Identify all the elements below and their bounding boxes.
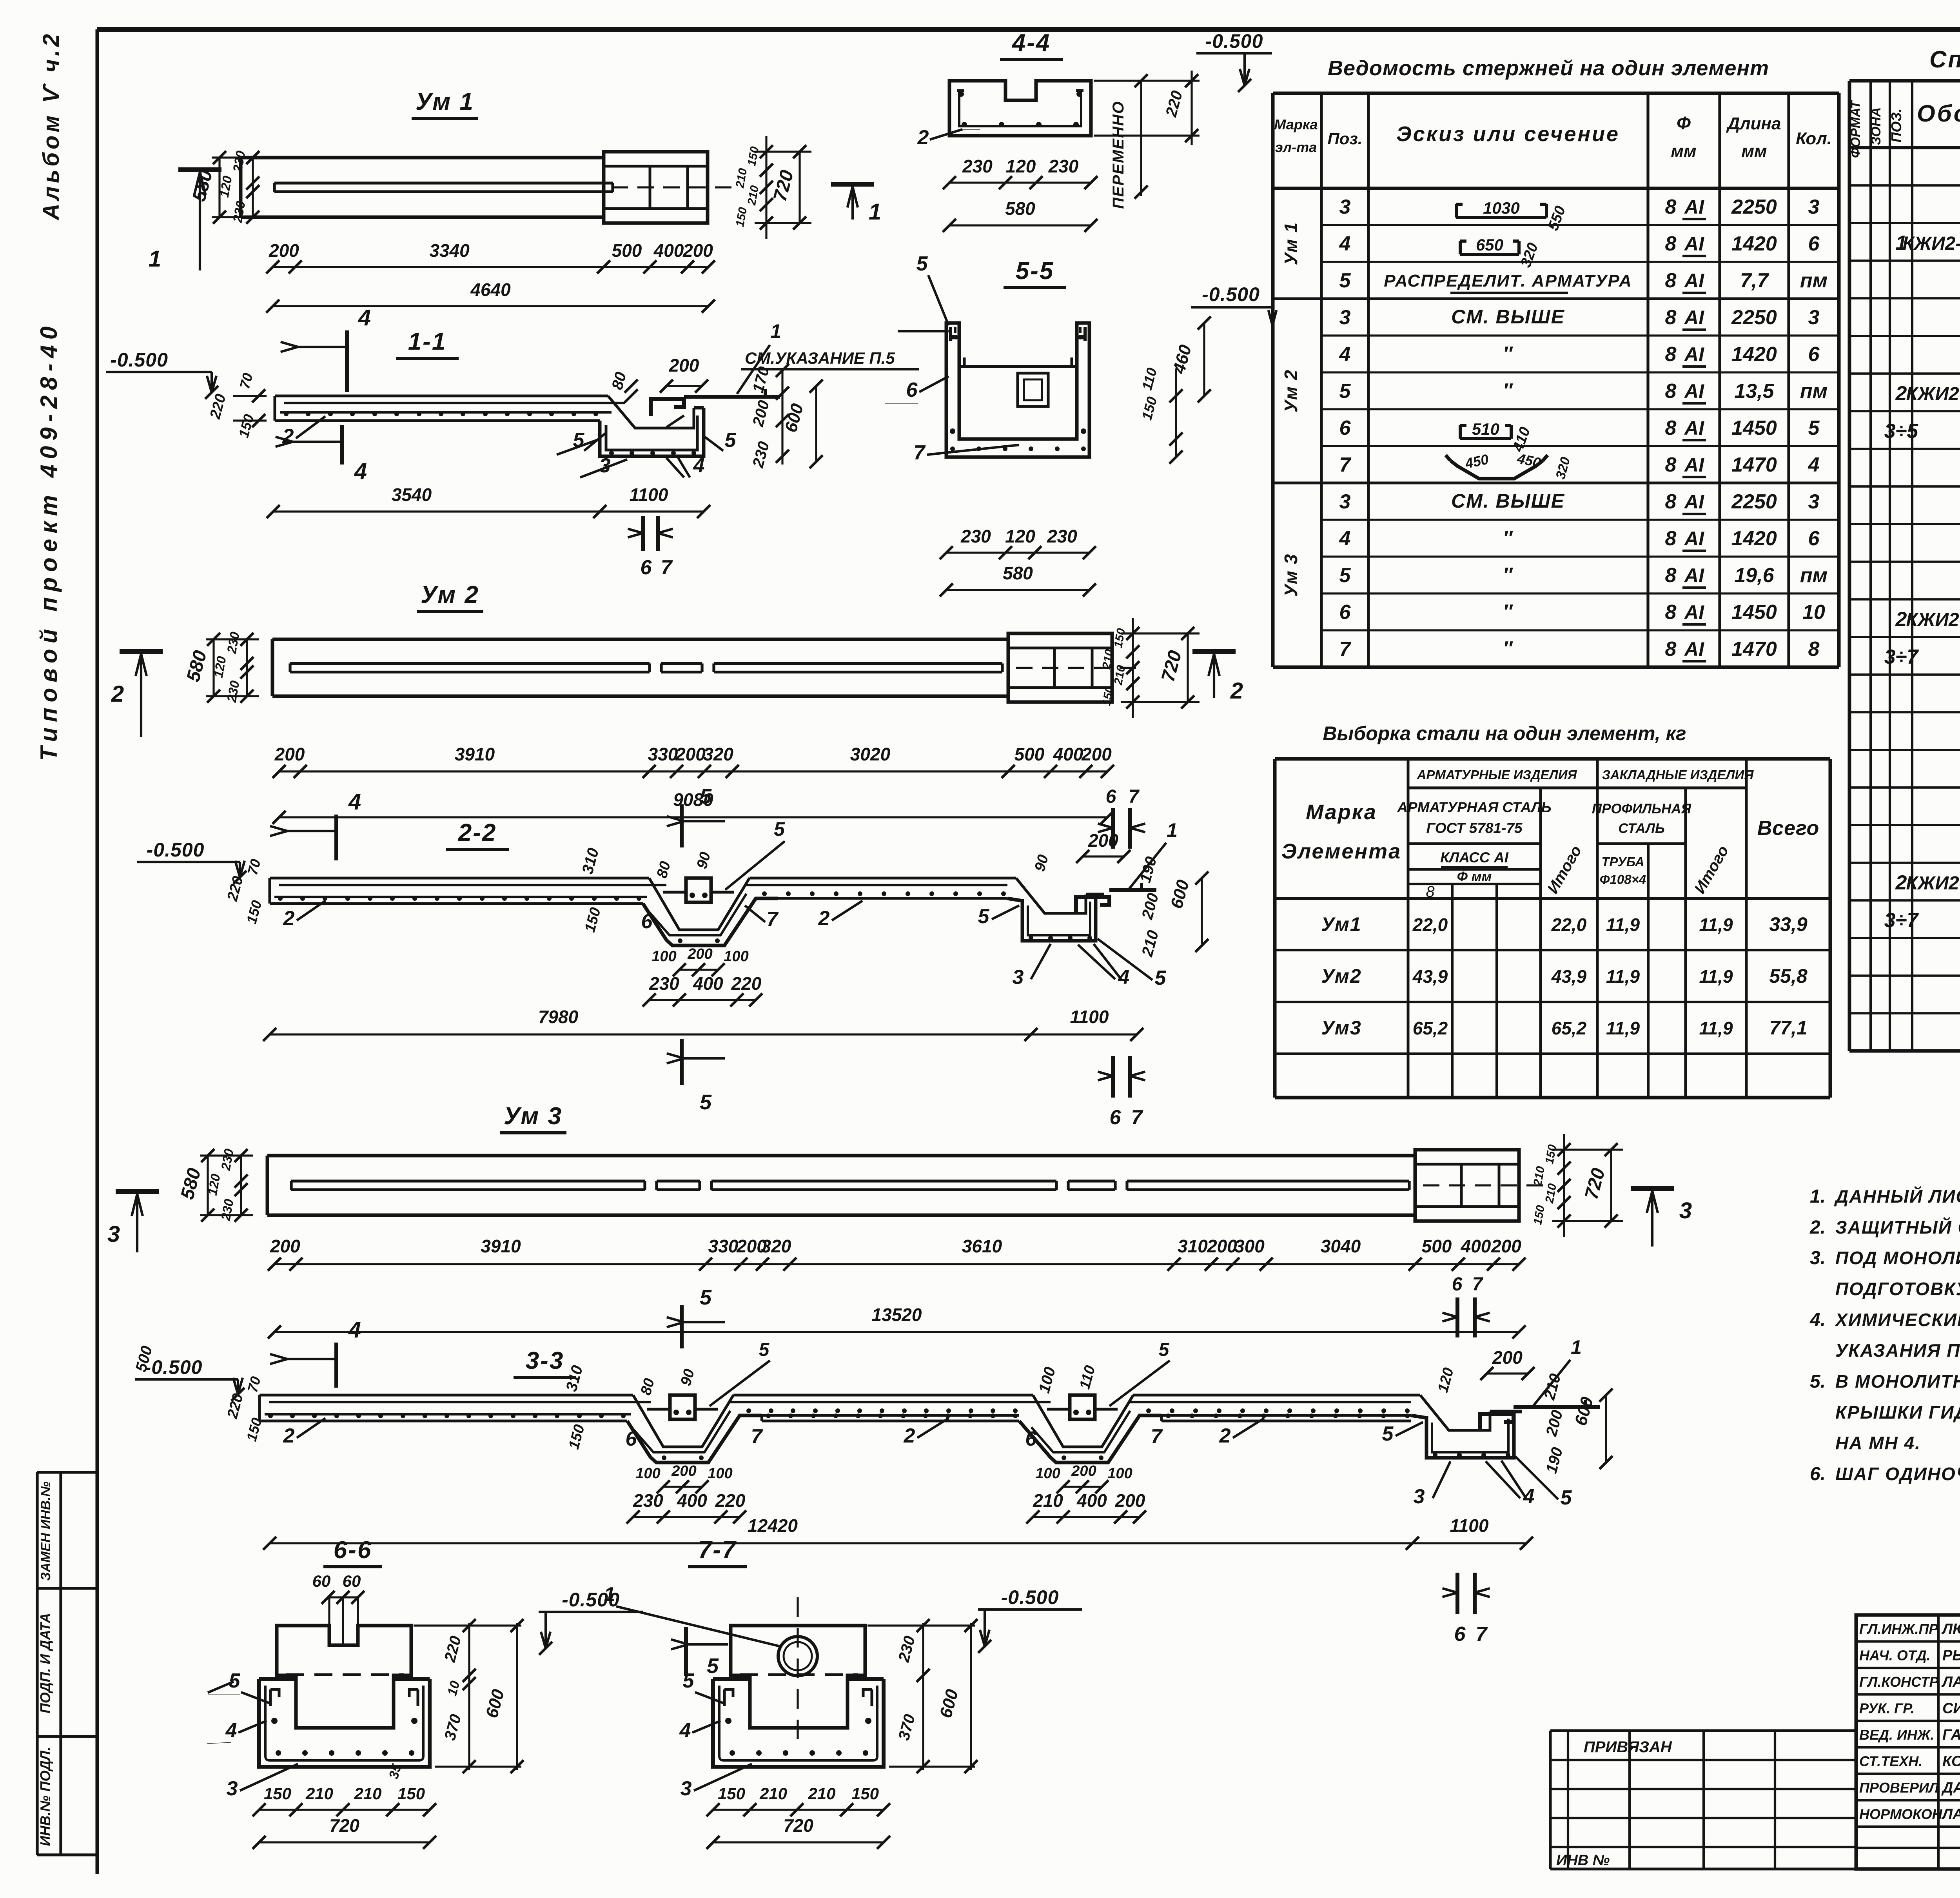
svg-text:Обозначение: Обозначение	[1917, 100, 1960, 127]
svg-text:8: 8	[1665, 380, 1677, 403]
svg-text:720: 720	[329, 1815, 359, 1836]
svg-text:2250: 2250	[1731, 306, 1777, 329]
svg-text:13,5: 13,5	[1734, 380, 1774, 403]
svg-text:КРЫШКИ ГИДРОЦИЛИНДРАМИ ЗАКЛ: КРЫШКИ ГИДРОЦИЛИНДРАМИ ЗАКЛАДНОЕ ИЗДЕЛИЕ…	[1835, 1402, 1960, 1423]
svg-text:Типовой проект 409-28-40: Типовой проект 409-28-40	[36, 321, 62, 761]
svg-text:РАСПРЕДЕЛИТ. АРМАТУРА: РАСПРЕДЕЛИТ. АРМАТУРА	[1384, 271, 1632, 290]
svg-text:100: 100	[1035, 1465, 1060, 1482]
svg-text:230: 230	[649, 973, 679, 994]
svg-text:эл-та: эл-та	[1275, 139, 1317, 155]
svg-text:ГЛ.ИНЖ.ПР: ГЛ.ИНЖ.ПР	[1859, 1621, 1939, 1637]
svg-text:АІ: АІ	[1684, 601, 1704, 623]
svg-text:5-5: 5-5	[1016, 258, 1054, 285]
svg-text:1470: 1470	[1731, 454, 1777, 476]
svg-text:3.: 3.	[1810, 1248, 1826, 1268]
svg-text:7: 7	[1472, 1274, 1484, 1295]
svg-text:19,6: 19,6	[1734, 564, 1774, 587]
svg-text:7: 7	[751, 1425, 763, 1448]
svg-text:230: 230	[633, 1490, 663, 1511]
svg-text:4: 4	[348, 1317, 361, 1343]
svg-text:200: 200	[274, 744, 305, 764]
svg-text:5: 5	[1808, 417, 1820, 439]
svg-text:КЖИ2-С1,С2,С10÷С23: КЖИ2-С1,С2,С10÷С23	[1906, 873, 1960, 894]
svg-text:7980: 7980	[538, 1007, 579, 1027]
svg-text:8: 8	[1665, 601, 1677, 624]
svg-text:6: 6	[641, 556, 652, 579]
svg-text:ЛАПКИН: ЛАПКИН	[1941, 1674, 1960, 1690]
svg-text:КОРЫШЕВА: КОРЫШЕВА	[1942, 1753, 1960, 1770]
svg-text:1: 1	[869, 199, 881, 225]
svg-text:3: 3	[1339, 306, 1351, 329]
svg-text:400: 400	[653, 240, 684, 261]
svg-text:22,0: 22,0	[1551, 915, 1587, 935]
svg-text:АІ: АІ	[1684, 417, 1704, 439]
svg-text:3: 3	[1339, 196, 1351, 218]
svg-text:ПЕРЕМЕННО: ПЕРЕМЕННО	[1110, 101, 1127, 209]
svg-text:1100: 1100	[630, 484, 668, 505]
svg-text:5: 5	[700, 1286, 712, 1309]
svg-text:ИНВ №: ИНВ №	[1556, 1852, 1610, 1869]
svg-text:ПРОФИЛЬНАЯ: ПРОФИЛЬНАЯ	[1592, 801, 1692, 817]
svg-text:ТРУБА: ТРУБА	[1601, 855, 1644, 869]
svg-text:4: 4	[1339, 527, 1351, 550]
svg-text:13520: 13520	[872, 1305, 922, 1325]
svg-text:5: 5	[707, 1654, 719, 1678]
svg-text:2: 2	[1230, 678, 1243, 704]
svg-text:НАЧ. ОТД.: НАЧ. ОТД.	[1859, 1648, 1931, 1664]
svg-text:11,9: 11,9	[1606, 966, 1640, 987]
svg-text:2: 2	[1895, 382, 1907, 405]
svg-text:3÷5: 3÷5	[1884, 420, 1918, 443]
svg-text:100: 100	[1107, 1465, 1132, 1482]
svg-text:Ф108×4: Ф108×4	[1600, 872, 1646, 887]
svg-text:6: 6	[1339, 601, 1351, 624]
svg-text:ГАЛЬПЕРИНА: ГАЛЬПЕРИНА	[1942, 1727, 1960, 1743]
svg-text:ДАВЫДОВА: ДАВЫДОВА	[1941, 1780, 1960, 1796]
svg-text:АІ: АІ	[1684, 454, 1704, 476]
svg-text:510: 510	[1472, 420, 1499, 438]
svg-text:мм: мм	[1671, 142, 1696, 161]
svg-text:1420: 1420	[1731, 527, 1777, 550]
svg-text:НА МН 4.: НА МН 4.	[1835, 1433, 1921, 1453]
svg-text:8: 8	[1665, 306, 1677, 329]
svg-text:7: 7	[767, 908, 779, 931]
svg-text:200: 200	[270, 1236, 300, 1256]
svg-text:150: 150	[397, 1784, 425, 1803]
svg-text:ГОСТ 5781-75: ГОСТ 5781-75	[1426, 820, 1523, 836]
svg-text:5: 5	[700, 785, 712, 808]
svg-text:8: 8	[1665, 232, 1677, 255]
svg-text:6: 6	[1110, 1106, 1122, 1129]
svg-text:8: 8	[1665, 454, 1677, 476]
svg-text:3: 3	[1414, 1485, 1425, 1508]
svg-text:5: 5	[774, 818, 785, 840]
svg-text:1450: 1450	[1731, 601, 1777, 624]
svg-text:АІ: АІ	[1684, 307, 1704, 328]
svg-text:НОРМОКОН: НОРМОКОН	[1859, 1806, 1943, 1822]
svg-text:400: 400	[1461, 1236, 1491, 1256]
svg-text:3020: 3020	[850, 744, 891, 764]
svg-text:4: 4	[358, 305, 371, 330]
svg-text:Кол.: Кол.	[1796, 129, 1832, 148]
svg-text:7: 7	[914, 441, 926, 464]
svg-text:4-4: 4-4	[1011, 29, 1051, 56]
svg-text:4: 4	[348, 789, 361, 815]
svg-text:″: ″	[1503, 527, 1513, 549]
svg-text:Ф мм: Ф мм	[1457, 869, 1492, 884]
svg-text:200: 200	[1491, 1236, 1521, 1256]
svg-text:1: 1	[149, 246, 161, 272]
svg-text:3: 3	[1808, 490, 1820, 513]
svg-text:5: 5	[1561, 1486, 1572, 1509]
svg-text:1: 1	[1167, 819, 1178, 841]
svg-text:5: 5	[683, 1669, 695, 1692]
svg-text:Всего: Всего	[1757, 817, 1820, 840]
svg-text:60: 60	[343, 1572, 361, 1590]
svg-text:ПОД МОНОЛИТНЫМИ УЧАСТКАМИ В: ПОД МОНОЛИТНЫМИ УЧАСТКАМИ ВЫПОЛНИТЬ	[1835, 1248, 1960, 1268]
svg-text:Ум2: Ум2	[1321, 965, 1361, 987]
svg-text:8: 8	[1808, 638, 1820, 660]
svg-text:200: 200	[1071, 1463, 1096, 1479]
svg-text:200: 200	[1081, 744, 1112, 764]
svg-text:1450: 1450	[1731, 417, 1777, 439]
svg-text:43,9: 43,9	[1551, 966, 1587, 987]
svg-text:580: 580	[1005, 198, 1035, 219]
svg-text:3÷7: 3÷7	[1884, 909, 1919, 932]
svg-text:8: 8	[1426, 883, 1435, 900]
svg-text:310: 310	[1178, 1236, 1208, 1256]
svg-text:2250: 2250	[1731, 196, 1777, 218]
svg-text:″: ″	[1503, 637, 1513, 659]
svg-text:Ум 1: Ум 1	[416, 88, 474, 115]
svg-text:10: 10	[1802, 601, 1825, 624]
svg-text:Элемента: Элемента	[1281, 840, 1401, 863]
svg-text:СТ.ТЕХН.: СТ.ТЕХН.	[1859, 1753, 1922, 1769]
svg-text:КЖИ2-МН4,МН8÷МН12: КЖИ2-МН4,МН8÷МН12	[1902, 233, 1960, 254]
svg-text:ИНВ.№ ПОДЛ.: ИНВ.№ ПОДЛ.	[37, 1747, 53, 1846]
svg-text:2250: 2250	[1731, 490, 1777, 513]
svg-text:650: 650	[1476, 236, 1503, 254]
svg-text:ПРОВЕРИЛ: ПРОВЕРИЛ	[1859, 1780, 1939, 1796]
svg-text:ПРИВЯЗАН: ПРИВЯЗАН	[1584, 1738, 1672, 1756]
svg-text:ФОРМАТ: ФОРМАТ	[1848, 100, 1863, 158]
svg-text:150: 150	[264, 1784, 291, 1803]
svg-text:3: 3	[1679, 1198, 1692, 1223]
svg-text:7: 7	[661, 556, 673, 579]
svg-text:1420: 1420	[1731, 343, 1777, 366]
svg-text:100: 100	[652, 948, 676, 965]
svg-text:пм: пм	[1800, 564, 1828, 587]
svg-text:Спецификация элементов монол: Спецификация элементов монолитной констр…	[1929, 46, 1960, 73]
svg-text:6: 6	[1808, 343, 1820, 366]
svg-text:120: 120	[1006, 156, 1036, 176]
svg-text:Ф: Ф	[1677, 113, 1691, 133]
svg-text:Эскиз или сечение: Эскиз или сечение	[1396, 122, 1620, 146]
svg-text:ЛЮБАВИН: ЛЮБАВИН	[1941, 1621, 1960, 1637]
svg-text:ЗОНА: ЗОНА	[1869, 107, 1884, 145]
svg-text:3910: 3910	[481, 1236, 521, 1256]
svg-text:ЛАПКИН: ЛАПКИН	[1941, 1806, 1960, 1823]
svg-text:4: 4	[1339, 343, 1351, 366]
svg-text:230: 230	[960, 526, 991, 546]
svg-text:7: 7	[1151, 1425, 1163, 1448]
svg-text:7-7: 7-7	[698, 1537, 737, 1564]
svg-text:43,9: 43,9	[1412, 966, 1448, 987]
svg-text:-0.500: -0.500	[1001, 1586, 1059, 1608]
svg-text:330: 330	[708, 1236, 739, 1256]
svg-text:7,7: 7,7	[1740, 269, 1769, 292]
svg-text:Длина: Длина	[1726, 114, 1781, 133]
svg-text:6: 6	[1025, 1428, 1037, 1450]
svg-text:-0.500: -0.500	[145, 1356, 203, 1378]
svg-text:1: 1	[604, 1583, 615, 1606]
svg-text:400: 400	[693, 973, 723, 994]
svg-text:-0.500: -0.500	[1205, 30, 1263, 52]
svg-text:1470: 1470	[1731, 638, 1777, 660]
svg-text:100: 100	[724, 948, 748, 965]
svg-text:65,2: 65,2	[1413, 1018, 1448, 1038]
svg-text:200: 200	[669, 355, 699, 376]
svg-text:230: 230	[962, 156, 993, 176]
svg-text:″: ″	[1503, 343, 1513, 365]
svg-text:-0.500: -0.500	[1202, 283, 1260, 305]
svg-text:200: 200	[682, 240, 713, 261]
svg-text:200: 200	[1207, 1236, 1237, 1256]
svg-text:4.: 4.	[1809, 1310, 1826, 1330]
svg-text:230: 230	[1047, 526, 1077, 546]
svg-text:6: 6	[1452, 1274, 1463, 1295]
svg-text:3-3: 3-3	[526, 1347, 564, 1374]
svg-text:77,1: 77,1	[1769, 1017, 1807, 1039]
svg-text:ЗАЩИТНЫЙ СЛОЙ БЕТОНА ДО РАБ: ЗАЩИТНЫЙ СЛОЙ БЕТОНА ДО РАБОЧЕЙ АРМАТУРЫ…	[1835, 1217, 1960, 1238]
svg-text:2: 2	[111, 681, 124, 707]
svg-text:22,0: 22,0	[1412, 915, 1448, 935]
svg-text:400: 400	[1076, 1490, 1107, 1511]
svg-text:СМ. ВЫШЕ: СМ. ВЫШЕ	[1451, 306, 1565, 328]
svg-text:РУК. ГР.: РУК. ГР.	[1859, 1700, 1915, 1717]
svg-text:ПОДП. И ДАТА: ПОДП. И ДАТА	[37, 1613, 53, 1713]
svg-text:5: 5	[700, 1091, 712, 1114]
svg-text:Ум 3: Ум 3	[1281, 553, 1301, 597]
svg-text:АІ: АІ	[1684, 233, 1704, 255]
svg-text:6: 6	[1106, 786, 1116, 807]
svg-text:12420: 12420	[748, 1515, 798, 1536]
svg-text:200: 200	[1115, 1490, 1145, 1511]
svg-text:210: 210	[759, 1784, 787, 1803]
svg-text:8: 8	[1665, 564, 1677, 587]
svg-text:ЗАМЕН ИНВ.№: ЗАМЕН ИНВ.№	[38, 1481, 53, 1580]
svg-text:мм: мм	[1741, 142, 1767, 161]
svg-text:СМ.УКАЗАНИЕ П.5: СМ.УКАЗАНИЕ П.5	[745, 349, 895, 367]
svg-text:150: 150	[718, 1784, 745, 1803]
svg-text:5: 5	[1339, 380, 1351, 403]
svg-text:ЗАКЛАДНЫЕ ИЗДЕЛИЯ: ЗАКЛАДНЫЕ ИЗДЕЛИЯ	[1602, 768, 1754, 782]
svg-text:220: 220	[715, 1490, 746, 1511]
svg-text:КЖИ2-С1,С2,С10÷С23: КЖИ2-С1,С2,С10÷С23	[1906, 610, 1960, 630]
svg-text:″: ″	[1503, 379, 1513, 401]
svg-text:6: 6	[1808, 232, 1820, 255]
svg-text:3: 3	[1013, 966, 1024, 989]
svg-text:АРМАТУРНАЯ СТАЛЬ: АРМАТУРНАЯ СТАЛЬ	[1397, 799, 1552, 815]
svg-text:33,9: 33,9	[1769, 913, 1808, 935]
svg-text:8: 8	[1665, 417, 1677, 439]
svg-text:720: 720	[783, 1815, 813, 1836]
svg-text:4: 4	[354, 459, 367, 484]
svg-text:210: 210	[808, 1784, 835, 1803]
svg-text:пм: пм	[1800, 380, 1828, 403]
svg-text:Марка: Марка	[1306, 800, 1377, 824]
svg-text:АІ: АІ	[1684, 380, 1704, 402]
svg-text:2: 2	[283, 1424, 295, 1447]
svg-text:″: ″	[1503, 564, 1513, 586]
svg-text:6: 6	[1454, 1623, 1466, 1646]
svg-text:5: 5	[1155, 967, 1167, 989]
svg-text:Альбом Ѵ ч.2: Альбом Ѵ ч.2	[38, 31, 64, 221]
svg-text:3: 3	[1808, 196, 1820, 218]
svg-text:АРМАТУРНЫЕ ИЗДЕЛИЯ: АРМАТУРНЫЕ ИЗДЕЛИЯ	[1416, 768, 1577, 782]
svg-text:6: 6	[641, 910, 653, 933]
svg-text:1100: 1100	[1450, 1515, 1489, 1536]
svg-text:7: 7	[1339, 454, 1352, 476]
svg-text:5: 5	[759, 1339, 770, 1360]
svg-text:220: 220	[731, 973, 762, 994]
svg-text:5: 5	[916, 252, 928, 275]
svg-text:100: 100	[708, 1465, 732, 1482]
svg-text:320: 320	[761, 1236, 791, 1256]
svg-text:3: 3	[227, 1777, 238, 1800]
svg-text:5: 5	[1159, 1339, 1170, 1360]
svg-text:320: 320	[703, 744, 733, 764]
svg-text:4: 4	[679, 1719, 691, 1742]
svg-text:7: 7	[1131, 1106, 1143, 1129]
svg-text:1: 1	[770, 320, 781, 342]
svg-text:СМ. ВЫШЕ: СМ. ВЫШЕ	[1451, 490, 1565, 512]
svg-text:11,9: 11,9	[1606, 915, 1640, 935]
svg-text:5: 5	[978, 905, 990, 928]
svg-text:4640: 4640	[470, 279, 511, 300]
svg-text:Ум 3: Ум 3	[504, 1103, 563, 1130]
svg-text:3: 3	[107, 1221, 120, 1247]
svg-text:11,9: 11,9	[1699, 915, 1733, 935]
svg-text:3: 3	[1808, 306, 1820, 329]
svg-text:СТАЛЬ: СТАЛЬ	[1618, 821, 1665, 836]
svg-text:2: 2	[283, 907, 295, 930]
svg-text:120: 120	[1005, 526, 1035, 546]
svg-text:3340: 3340	[429, 240, 470, 261]
svg-text:1-1: 1-1	[408, 328, 447, 355]
svg-text:-0.500: -0.500	[147, 839, 205, 861]
svg-text:1.: 1.	[1810, 1186, 1826, 1207]
svg-text:2: 2	[1219, 1424, 1231, 1447]
svg-text:3: 3	[681, 1777, 692, 1800]
svg-text:ХИМИЧЕСКИЕ ДОБАВКИ ДЛЯ КЕР: ХИМИЧЕСКИЕ ДОБАВКИ ДЛЯ КЕРАМЗИТОБЕТОНА С…	[1834, 1310, 1960, 1330]
svg-text:400: 400	[677, 1490, 707, 1511]
svg-text:Ум3: Ум3	[1321, 1017, 1361, 1039]
svg-text:3910: 3910	[455, 744, 495, 764]
svg-text:5: 5	[1339, 269, 1351, 292]
svg-text:ВЕД. ИНЖ.: ВЕД. ИНЖ.	[1859, 1727, 1934, 1743]
svg-text:2: 2	[904, 1424, 915, 1447]
svg-text:500: 500	[1422, 1236, 1452, 1256]
svg-text:2-2: 2-2	[458, 819, 497, 846]
svg-text:3610: 3610	[962, 1236, 1002, 1256]
svg-text:-0.500: -0.500	[110, 349, 168, 371]
svg-text:7: 7	[1476, 1623, 1488, 1646]
svg-text:Ум 2: Ум 2	[1281, 369, 1301, 412]
svg-text:6: 6	[1808, 527, 1820, 550]
svg-text:3040: 3040	[1321, 1236, 1361, 1256]
svg-text:2.: 2.	[1809, 1217, 1826, 1238]
svg-text:УКАЗАНИЯ П. 6 НА Л. КЖ8-1.: УКАЗАНИЯ П. 6 НА Л. КЖ8-1.	[1835, 1340, 1960, 1361]
svg-text:65,2: 65,2	[1552, 1018, 1587, 1038]
svg-text:Ведомость стержней на один: Ведомость стержней на один элемент	[1328, 56, 1769, 80]
svg-text:АІ: АІ	[1684, 491, 1704, 513]
svg-text:210: 210	[354, 1784, 381, 1803]
svg-text:Ум1: Ум1	[1321, 913, 1361, 935]
svg-text:100: 100	[635, 1465, 660, 1482]
svg-text:АІ: АІ	[1684, 270, 1704, 292]
svg-text:1420: 1420	[1731, 232, 1777, 255]
svg-text:8: 8	[1665, 196, 1677, 218]
svg-text:АІ: АІ	[1684, 196, 1704, 218]
svg-text:АІ: АІ	[1684, 638, 1704, 660]
svg-text:Ум 1: Ум 1	[1281, 222, 1301, 265]
svg-text:8: 8	[1665, 638, 1677, 660]
svg-text:4: 4	[693, 454, 705, 477]
svg-text:5: 5	[229, 1669, 241, 1692]
svg-text:4: 4	[1808, 454, 1820, 476]
svg-text:230: 230	[1048, 156, 1079, 176]
svg-text:3: 3	[1339, 490, 1351, 513]
svg-text:2: 2	[1895, 608, 1907, 631]
svg-text:РЫБКИНА: РЫБКИНА	[1942, 1648, 1960, 1664]
svg-text:6: 6	[626, 1428, 637, 1450]
svg-text:330: 330	[648, 744, 678, 764]
svg-text:Марка: Марка	[1274, 116, 1318, 132]
svg-text:ШАГ ОДИНОЧНЫХ СТЕРЖНЕЙ: ШАГ ОДИНОЧНЫХ СТЕРЖНЕЙ ПРИНЯТ 200 мм.	[1835, 1464, 1960, 1484]
svg-text:11,9: 11,9	[1699, 966, 1733, 987]
svg-text:пм: пм	[1800, 269, 1828, 292]
svg-text:8: 8	[1665, 490, 1677, 513]
svg-text:КЛАСС АІ: КЛАСС АІ	[1440, 849, 1508, 866]
svg-text:АІ: АІ	[1684, 343, 1704, 365]
svg-text:1100: 1100	[1070, 1007, 1109, 1027]
svg-text:ДАННЫЙ ЛИСТ СМ. СОВМЕСТНО: ДАННЫЙ ЛИСТ СМ. СОВМЕСТНО С ЛИСТОМ КЖ8-5	[1834, 1186, 1960, 1207]
svg-text:5: 5	[1382, 1423, 1394, 1445]
svg-text:60: 60	[312, 1572, 331, 1590]
svg-text:200: 200	[1492, 1347, 1523, 1368]
svg-text:500: 500	[1014, 744, 1045, 764]
svg-text:11,9: 11,9	[1699, 1018, 1733, 1038]
svg-text:1: 1	[1571, 1336, 1582, 1358]
svg-text:6: 6	[1339, 417, 1351, 439]
svg-text:200: 200	[687, 946, 712, 962]
svg-text:1030: 1030	[1483, 199, 1519, 217]
svg-text:Поз.: Поз.	[1328, 129, 1363, 148]
svg-text:200: 200	[671, 1463, 696, 1479]
svg-text:580: 580	[1003, 563, 1033, 583]
svg-text:7: 7	[1339, 638, 1352, 660]
svg-text:КЖИ2-С1,С2,С10÷С23: КЖИ2-С1,С2,С10÷С23	[1906, 384, 1960, 405]
svg-text:6: 6	[906, 379, 918, 401]
svg-text:СИНЕЛЬНИКОВА: СИНЕЛЬНИКОВА	[1942, 1700, 1960, 1717]
svg-text:3540: 3540	[392, 484, 432, 505]
svg-text:ПОДГОТОВКУ ИЗ БЕТОНА МАРКИ: ПОДГОТОВКУ ИЗ БЕТОНА МАРКИ 50 ТОЛЩИНОЙ 1…	[1835, 1279, 1960, 1299]
svg-text:Ум 2: Ум 2	[421, 581, 479, 608]
svg-text:6-6: 6-6	[334, 1537, 372, 1564]
svg-text:Выборка стали на один элем: Выборка стали на один элемент, кг	[1323, 722, 1686, 744]
svg-text:3÷7: 3÷7	[1884, 646, 1919, 668]
